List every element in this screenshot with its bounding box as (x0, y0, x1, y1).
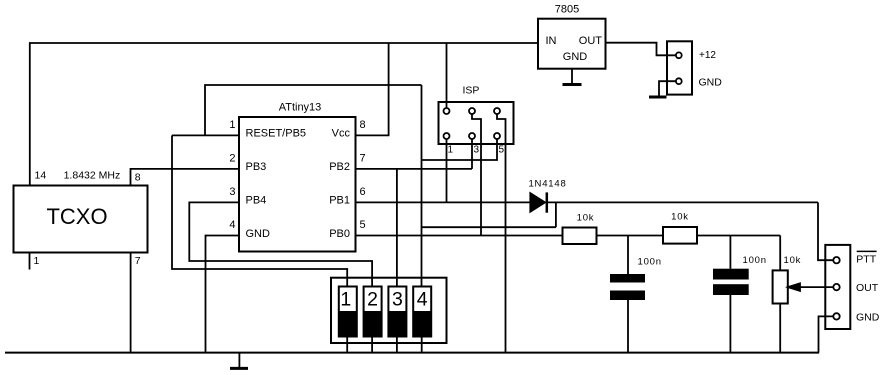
svg-text:100n: 100n (638, 256, 662, 267)
svg-text:8: 8 (360, 119, 366, 131)
wire top supply rail (30, 43, 538, 186)
ISP pin 3 circle (469, 133, 475, 139)
svg-text:RESET/PB5: RESET/PB5 (246, 128, 307, 140)
svg-text:1N4148: 1N4148 (528, 179, 566, 190)
wire diode cathode to PTT column (548, 201, 818, 203)
diode D1 1N4148 (530, 193, 545, 212)
resistor R2 10k (663, 227, 697, 244)
wire 7805 OUT to +12 connector (606, 43, 676, 56)
wire TCXO pin 1 stub (29, 253, 31, 270)
PTT overline (857, 250, 877, 252)
wire Vcc pin8 to top rail (356, 43, 389, 135)
svg-text:ATtiny13: ATtiny13 (279, 102, 322, 114)
wire ISP pin3 down to PB2 (471, 139, 473, 169)
svg-text:100n: 100n (743, 255, 767, 266)
TCXO X1 (14, 186, 148, 253)
ISP pin 2 circle (444, 108, 450, 114)
wire DIP1 bottom to ground rail (346, 337, 348, 353)
wire DIP3 bottom to ground rail (396, 337, 398, 353)
ground symbol 7805 (563, 83, 582, 86)
DIP switch 3 (388, 287, 406, 337)
svg-text:Vcc: Vcc (332, 128, 351, 140)
svg-text:PB2: PB2 (329, 161, 350, 173)
wire ISP pin1 down to PB1 (446, 139, 448, 202)
connector J-out box (825, 245, 850, 329)
ISP pin 4 circle (469, 108, 475, 114)
DIP switch 1 (339, 287, 357, 337)
svg-text:OUT: OUT (856, 282, 879, 294)
svg-text:6: 6 (360, 186, 366, 198)
ground symbol power connector (649, 96, 667, 99)
wire ISP pin5 down and left to RESET column (422, 139, 498, 160)
wire bottom ground rail (5, 352, 819, 354)
wire DIP4 bottom to ground rail (421, 337, 423, 353)
wire TCXO pin 8 to PB3 (131, 169, 240, 186)
svg-text:2: 2 (367, 289, 378, 311)
regulator U2 7805 box (538, 19, 606, 69)
out pin PTT circle (833, 257, 839, 263)
svg-text:10k: 10k (784, 255, 802, 266)
svg-text:GND: GND (246, 228, 271, 240)
svg-text:3: 3 (229, 186, 235, 198)
wire ISP pin6 jog down to ground rail (497, 114, 506, 353)
svg-text:8: 8 (135, 172, 141, 184)
svg-text:GND: GND (563, 51, 588, 63)
wire PTT pin to diode line (818, 202, 834, 260)
svg-text:PB0: PB0 (329, 228, 350, 240)
svg-text:ISP: ISP (463, 85, 480, 97)
wire R1 to R2 (597, 235, 664, 237)
wire PB1 pin6 to diode anode (356, 201, 531, 203)
wire power GND pin down (659, 81, 676, 97)
svg-text:IN: IN (546, 35, 557, 47)
svg-text:GND: GND (699, 77, 723, 89)
svg-text:1: 1 (340, 289, 351, 311)
out pin GND circle (833, 313, 839, 319)
svg-text:10k: 10k (671, 212, 689, 223)
connector J-power box (667, 41, 692, 94)
svg-text:1: 1 (229, 119, 235, 131)
capacitor C2 100n (729, 236, 731, 269)
ISP pin 6 circle (494, 108, 500, 114)
svg-text:TCXO: TCXO (46, 204, 107, 229)
wire PB0 pin5 to resistor (356, 235, 563, 237)
wire ISP pin2 to top rail (446, 43, 448, 108)
svg-text:4: 4 (229, 219, 235, 231)
svg-text:7805: 7805 (555, 4, 579, 16)
wire back to DIP4 column (422, 226, 556, 228)
svg-text:PB3: PB3 (246, 161, 267, 173)
svg-text:5: 5 (360, 219, 366, 231)
svg-text:PB1: PB1 (329, 195, 350, 207)
potentiometer P1 10k (779, 236, 781, 271)
wire RESET up and across (205, 85, 422, 135)
ISP pin 1 circle (444, 133, 450, 139)
svg-text:PTT: PTT (856, 253, 876, 265)
wire PB2 column down to DIP3 (396, 169, 398, 287)
wire RESET wrap down to DIP1 (172, 135, 347, 286)
connector J-ISP box (439, 102, 514, 144)
resistor R1 10k (563, 228, 597, 245)
wire PB2 pin7 to ISP pin3 (356, 168, 473, 170)
svg-text:4: 4 (417, 289, 428, 311)
svg-text:7: 7 (135, 255, 141, 267)
svg-text:14: 14 (35, 170, 47, 182)
wire DIP2 bottom to ground rail (371, 337, 373, 353)
svg-text:3: 3 (392, 289, 403, 311)
ground symbol main rail (238, 353, 240, 368)
IC U1 ATtiny13 (239, 117, 356, 252)
wire R2 to potentiometer (697, 235, 780, 237)
DIP switch 2 (364, 287, 382, 337)
wire out GND pin to ground rail (819, 316, 834, 352)
svg-text:PB4: PB4 (246, 195, 267, 207)
DIP switch 4 (413, 287, 431, 337)
wire PB4 pin3 wrap to DIP2 (189, 202, 372, 286)
svg-text:1: 1 (448, 145, 454, 156)
wire TCXO pin 7 to ground rail (130, 253, 132, 353)
out pin OUT circle (833, 284, 839, 290)
wire 7805 GND pin (571, 69, 573, 84)
svg-text:3: 3 (474, 145, 480, 156)
svg-text:1: 1 (34, 255, 40, 267)
svg-text:+12: +12 (699, 50, 716, 61)
svg-text:2: 2 (229, 153, 235, 165)
wire junction down from diode line (555, 202, 557, 227)
potentiometer wiper arrow (799, 286, 833, 288)
svg-text:GND: GND (856, 311, 880, 323)
svg-text:OUT: OUT (579, 35, 603, 47)
power pin GND circle (676, 78, 682, 84)
power pin +12 circle (676, 52, 682, 58)
wire GND pin4 to ground rail (206, 236, 240, 353)
svg-text:5: 5 (499, 145, 505, 156)
ISP pin 5 circle (494, 133, 500, 139)
switch S1 DIP block (331, 278, 447, 343)
wire RESET pin1 left (172, 134, 239, 136)
svg-text:10k: 10k (577, 213, 595, 224)
svg-text:7: 7 (360, 153, 366, 165)
capacitor C1 100n (627, 236, 629, 275)
wire RESET column down to DIP4 (421, 85, 423, 287)
wire ISP pin4 jog down to PB0 (472, 114, 481, 236)
svg-text:1.8432 MHz: 1.8432 MHz (64, 170, 121, 182)
